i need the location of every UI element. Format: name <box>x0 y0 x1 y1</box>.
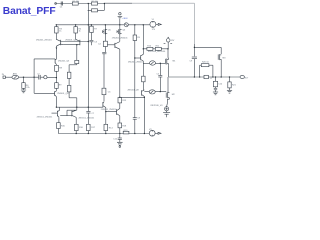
svg-text:2N5401_Q3: 2N5401_Q3 <box>58 61 70 63</box>
svg-text:C6: C6 <box>108 91 112 93</box>
svg-text:R9: R9 <box>59 85 63 87</box>
svg-text:R7: R7 <box>94 28 98 30</box>
svg-text:IN: IN <box>2 74 5 76</box>
svg-text:R1 10k: R1 10k <box>73 1 81 3</box>
svg-text:IRF9540_IRF9540: IRF9540_IRF9540 <box>148 51 166 53</box>
svg-text:1k: 1k <box>79 31 82 33</box>
svg-text:R21: R21 <box>232 84 237 86</box>
svg-text:Q6: Q6 <box>122 30 126 32</box>
svg-text:+38.8: +38.8 <box>122 18 128 20</box>
svg-text:IRFP240_V4: IRFP240_V4 <box>151 105 164 107</box>
svg-text:2N5551_2N5551: 2N5551_2N5551 <box>79 118 96 120</box>
svg-text:2N5401_Q2: 2N5401_Q2 <box>65 39 77 41</box>
svg-text:C4: C4 <box>98 44 102 46</box>
svg-text:C9: C9 <box>190 61 194 63</box>
svg-text:V1: V1 <box>152 19 154 21</box>
svg-text:2N5551_2N5551: 2N5551_2N5551 <box>101 109 118 111</box>
svg-text:M2: M2 <box>172 94 176 96</box>
svg-text:C2: C2 <box>37 74 39 76</box>
svg-text:2N5401_2N5401: 2N5401_2N5401 <box>36 39 53 41</box>
svg-text:Banat_PFF: Banat_PFF <box>3 6 56 17</box>
svg-text:R13: R13 <box>122 100 127 102</box>
svg-text:R16: R16 <box>79 127 84 129</box>
svg-text:R8: R8 <box>59 68 63 70</box>
svg-text:2N5401_Q4: 2N5401_Q4 <box>57 93 69 95</box>
svg-text:R17: R17 <box>91 127 96 129</box>
svg-text:M1: M1 <box>173 61 177 63</box>
svg-text:R2 10k: R2 10k <box>92 1 100 3</box>
svg-text:R18: R18 <box>122 126 127 128</box>
svg-text:C10: C10 <box>218 84 223 86</box>
svg-text:R20 10: R20 10 <box>202 61 210 63</box>
svg-text:12V: 12V <box>152 29 156 31</box>
svg-text:2N5401_2N5401: 2N5401_2N5401 <box>112 38 129 40</box>
svg-text:R15: R15 <box>61 126 66 128</box>
svg-text:2N5401_Q8: 2N5401_Q8 <box>128 89 140 91</box>
svg-text:2N5401_2N5401: 2N5401_2N5401 <box>128 61 145 63</box>
svg-text:Q5: Q5 <box>108 30 112 32</box>
svg-text:M3: M3 <box>223 58 227 60</box>
svg-text:C7: C7 <box>92 113 96 115</box>
svg-text:1k: 1k <box>59 31 62 33</box>
svg-text:2N5551_2N5551: 2N5551_2N5551 <box>37 116 54 118</box>
svg-text:22k: 22k <box>26 87 30 89</box>
svg-text:R9: R9 <box>137 37 141 39</box>
svg-text:C1: C1 <box>60 7 64 9</box>
svg-text:12V: 12V <box>171 40 175 42</box>
svg-text:R14: R14 <box>109 127 114 129</box>
svg-text:C8: C8 <box>137 117 141 119</box>
svg-text:L1: L1 <box>210 78 212 80</box>
svg-text:OUT: OUT <box>244 78 249 80</box>
svg-text:C12: C12 <box>113 139 118 141</box>
